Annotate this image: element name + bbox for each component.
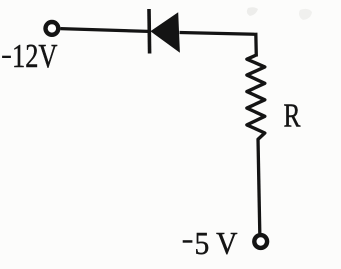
wire from resistor bottom to terminal T2: [258, 139, 260, 234]
terminal T2 (-5V terminal): [254, 235, 267, 248]
label -5V minus sign: [183, 240, 193, 243]
scan smudge top-right 1: [247, 7, 258, 16]
scan smudge top-right 2: [299, 9, 312, 20]
diode D1 triangle (pointing left): [150, 12, 180, 52]
wire from T1 to diode anode: [61, 29, 149, 32]
svg-text:5 V: 5 V: [195, 226, 238, 261]
terminal T1 (-12V input terminal): [46, 22, 59, 35]
svg-text:12V: 12V: [12, 38, 58, 75]
resistor R zigzag: [247, 55, 265, 140]
wire corner down to resistor top: [254, 33, 258, 57]
diode D1 cathode bar: [147, 9, 151, 54]
label -12V minus sign: [2, 56, 11, 58]
wire from diode to top-right corner: [180, 33, 256, 35]
svg-text:R: R: [284, 98, 301, 135]
